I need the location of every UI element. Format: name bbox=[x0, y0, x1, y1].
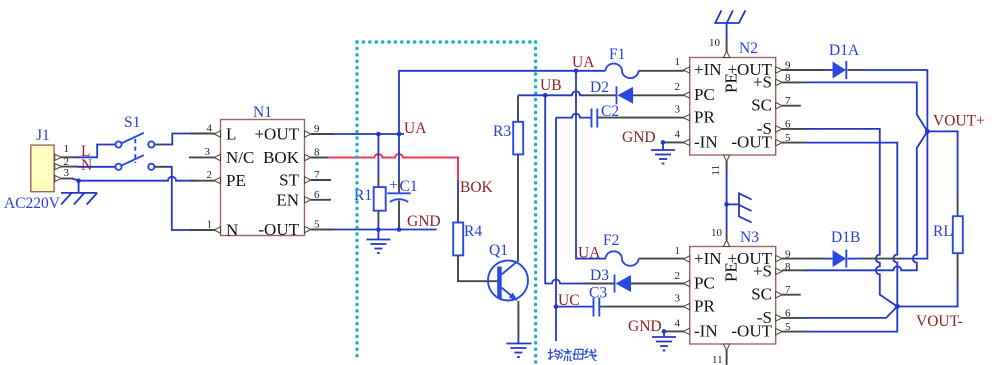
svg-text:F2: F2 bbox=[603, 232, 619, 249]
svg-text:PR: PR bbox=[694, 108, 715, 127]
wire UB riser to D3 bbox=[545, 95, 584, 283]
module N3 bbox=[675, 227, 792, 365]
diode D2 bbox=[590, 79, 684, 104]
ground symbol (Q1) bbox=[506, 344, 531, 358]
wire D1B to VOUT+ vertical bbox=[848, 258, 863, 260]
wire N2 pin11 to N3 pin10 bbox=[726, 161, 728, 240]
transistor Q1 bbox=[488, 242, 528, 301]
svg-text:AC220V: AC220V bbox=[4, 195, 61, 212]
switch S1 bbox=[115, 114, 154, 170]
svg-text:Q1: Q1 bbox=[489, 242, 508, 259]
svg-text:SC: SC bbox=[751, 285, 772, 304]
svg-text:1: 1 bbox=[64, 143, 70, 155]
svg-text:N1: N1 bbox=[253, 104, 272, 121]
svg-text:+IN: +IN bbox=[694, 249, 722, 268]
svg-text:N/C: N/C bbox=[226, 148, 254, 167]
svg-text:GND: GND bbox=[407, 213, 441, 230]
svg-text:GND: GND bbox=[622, 129, 656, 146]
svg-text:D1B: D1B bbox=[831, 229, 860, 246]
svg-text:D3: D3 bbox=[590, 267, 609, 284]
wire UA riser to top rail bbox=[399, 71, 576, 134]
wire VOUT+ sense jog bbox=[805, 131, 927, 270]
fuse F2 bbox=[603, 232, 684, 266]
wire N3 pin4 to ground bbox=[663, 331, 684, 337]
svg-text:N: N bbox=[81, 157, 92, 174]
svg-text:PE: PE bbox=[722, 262, 741, 282]
label 均流母线 (current-share bus) bbox=[548, 349, 596, 361]
svg-text:+OUT: +OUT bbox=[254, 125, 299, 144]
svg-text:SC: SC bbox=[751, 96, 772, 115]
svg-text:1: 1 bbox=[675, 56, 681, 68]
wire N1 pin5 GND net bbox=[311, 229, 437, 231]
svg-text:4: 4 bbox=[675, 128, 681, 140]
svg-text:VOUT-: VOUT- bbox=[916, 313, 963, 330]
svg-text:+S: +S bbox=[753, 261, 772, 280]
svg-text:4: 4 bbox=[675, 317, 681, 329]
wire N2 pin4 to ground bbox=[662, 142, 684, 150]
svg-text:UB: UB bbox=[540, 77, 562, 94]
wire N1 pin6 EN stub bbox=[311, 199, 331, 201]
ground symbol (R1) bbox=[366, 240, 390, 254]
wire S1 top to N1 pin4 bbox=[155, 134, 215, 145]
diode D1B bbox=[831, 229, 860, 268]
node GND-C1 junction bbox=[397, 227, 402, 232]
svg-text:3: 3 bbox=[64, 167, 70, 179]
wire N2 -OUT down bbox=[782, 143, 897, 307]
svg-text:PE: PE bbox=[722, 73, 741, 93]
wire N1 pin7 ST stub bbox=[311, 179, 331, 181]
module N1 bbox=[205, 104, 321, 240]
svg-text:C3: C3 bbox=[589, 285, 607, 302]
wire N2 -S down bbox=[782, 129, 897, 307]
svg-text:N2: N2 bbox=[739, 40, 758, 57]
svg-text:UA: UA bbox=[572, 54, 595, 71]
svg-text:C2: C2 bbox=[601, 103, 619, 120]
svg-text:F1: F1 bbox=[609, 46, 625, 63]
diode D3 bbox=[590, 267, 684, 293]
svg-text:R3: R3 bbox=[493, 123, 511, 140]
svg-text:BOK: BOK bbox=[263, 148, 300, 167]
svg-text:-OUT: -OUT bbox=[731, 133, 772, 152]
svg-text:3: 3 bbox=[205, 146, 211, 158]
svg-text:C1: C1 bbox=[400, 178, 418, 195]
wire N3 -S to VOUT- bbox=[782, 307, 897, 318]
wire VOUT+ to RL bbox=[927, 131, 957, 217]
node UB junction bbox=[543, 93, 548, 98]
svg-text:2: 2 bbox=[675, 270, 681, 282]
dotted boundary bbox=[357, 42, 536, 364]
wire S1 bottom to N1 pin1 bbox=[155, 167, 215, 230]
wire N2 +S to VOUT+ bbox=[782, 82, 927, 131]
svg-text:UA: UA bbox=[578, 245, 601, 262]
resistor R1 bbox=[354, 134, 386, 240]
wire N3 pin11 stub bbox=[726, 350, 728, 365]
node PE junction at J1 bbox=[76, 178, 81, 183]
module N2 bbox=[675, 37, 792, 176]
wire N2 +OUT bbox=[782, 69, 833, 71]
chassis ground (rotated, N2-N3 link) bbox=[727, 192, 752, 222]
chassis ground above N2 bbox=[714, 10, 745, 23]
node N2 gnd junction bbox=[661, 140, 666, 145]
wire N3 SC stub bbox=[782, 294, 801, 296]
svg-text:N: N bbox=[226, 221, 238, 240]
node UA-R1 junction bbox=[376, 132, 381, 137]
ground symbol (N2) bbox=[651, 150, 675, 164]
svg-text:1: 1 bbox=[675, 245, 681, 257]
svg-text:L: L bbox=[226, 125, 236, 144]
svg-text:EN: EN bbox=[276, 190, 299, 209]
svg-text:PC: PC bbox=[694, 274, 715, 293]
node VOUT- junction bbox=[895, 304, 900, 309]
wire N1 pin8 BOK red bbox=[311, 154, 458, 222]
wire N1 pin9 UA net bbox=[311, 133, 404, 135]
node VOUT+ junction bbox=[925, 129, 930, 134]
svg-text:D1A: D1A bbox=[829, 42, 860, 59]
svg-text:RL: RL bbox=[933, 223, 953, 240]
svg-text:GND: GND bbox=[628, 318, 662, 335]
svg-text:-OUT: -OUT bbox=[258, 220, 299, 239]
diode D1A bbox=[829, 42, 860, 79]
wire N3 +OUT bbox=[782, 258, 833, 260]
svg-text:+IN: +IN bbox=[694, 60, 722, 79]
svg-text:3: 3 bbox=[675, 104, 681, 116]
svg-text:S1: S1 bbox=[124, 114, 140, 131]
node bus-C3 junction bbox=[554, 304, 559, 309]
connector J1 bbox=[31, 127, 70, 192]
fuse F1 bbox=[575, 46, 684, 78]
svg-text:1: 1 bbox=[207, 219, 213, 231]
svg-text:10: 10 bbox=[709, 37, 721, 49]
capacitor C1 bbox=[387, 134, 417, 230]
node N3 gnd junction bbox=[662, 329, 667, 334]
wire RL to VOUT- bbox=[897, 253, 957, 306]
wire N2 pin10 to chassis bbox=[726, 23, 728, 52]
svg-text:4: 4 bbox=[207, 123, 213, 135]
wire N2 SC stub bbox=[782, 105, 801, 107]
capacitor C3 bbox=[556, 285, 684, 317]
wire Q1 emitter to ground bbox=[517, 301, 519, 344]
svg-text:J1: J1 bbox=[36, 127, 50, 144]
svg-text:-IN: -IN bbox=[694, 132, 718, 151]
resistor RL bbox=[933, 216, 963, 253]
wire N1 pin3 N/C stub bbox=[189, 156, 215, 158]
svg-text:PC: PC bbox=[694, 85, 715, 104]
wire current-share bus bbox=[555, 118, 557, 341]
resistor R3 bbox=[493, 95, 523, 261]
svg-text:3: 3 bbox=[675, 293, 681, 305]
node link junction bbox=[724, 202, 729, 207]
node UA-C1 junction bbox=[397, 132, 402, 137]
node GND-R1 junction bbox=[376, 227, 381, 232]
svg-text:+S: +S bbox=[753, 72, 772, 91]
svg-text:R4: R4 bbox=[464, 223, 482, 240]
wire D1A to VOUT+ bbox=[848, 69, 863, 71]
svg-text:D2: D2 bbox=[590, 79, 609, 96]
wire N3 -OUT to VOUT- bbox=[782, 307, 897, 332]
svg-text:N3: N3 bbox=[740, 229, 759, 246]
svg-text:VOUT+: VOUT+ bbox=[933, 113, 985, 130]
wire J1 pin3 PE bbox=[61, 177, 215, 193]
svg-text:10: 10 bbox=[711, 227, 723, 239]
svg-text:-OUT: -OUT bbox=[731, 322, 772, 341]
capacitor C2 bbox=[556, 103, 684, 128]
svg-text:2: 2 bbox=[675, 81, 681, 93]
svg-text:2: 2 bbox=[207, 169, 213, 181]
wire J1 pin1 L bbox=[61, 145, 115, 158]
svg-text:PR: PR bbox=[694, 297, 715, 316]
svg-text:-IN: -IN bbox=[694, 321, 718, 340]
ground symbol (N3) bbox=[652, 337, 676, 351]
svg-text:ST: ST bbox=[279, 171, 299, 190]
svg-text:11: 11 bbox=[710, 165, 722, 176]
wire UA riser to F2 bbox=[576, 71, 606, 259]
svg-text:+: + bbox=[389, 177, 398, 194]
svg-text:BOK: BOK bbox=[460, 179, 494, 196]
svg-text:PE: PE bbox=[226, 171, 246, 190]
resistor R4 bbox=[453, 223, 498, 282]
node UA rail junction bbox=[574, 69, 579, 74]
wire UB net from R3 top bbox=[518, 91, 617, 95]
wire J1 pin2 N bbox=[61, 166, 115, 168]
svg-text:11: 11 bbox=[712, 354, 723, 365]
svg-text:UA: UA bbox=[404, 120, 427, 137]
earth symbol below J1 bbox=[61, 193, 97, 205]
